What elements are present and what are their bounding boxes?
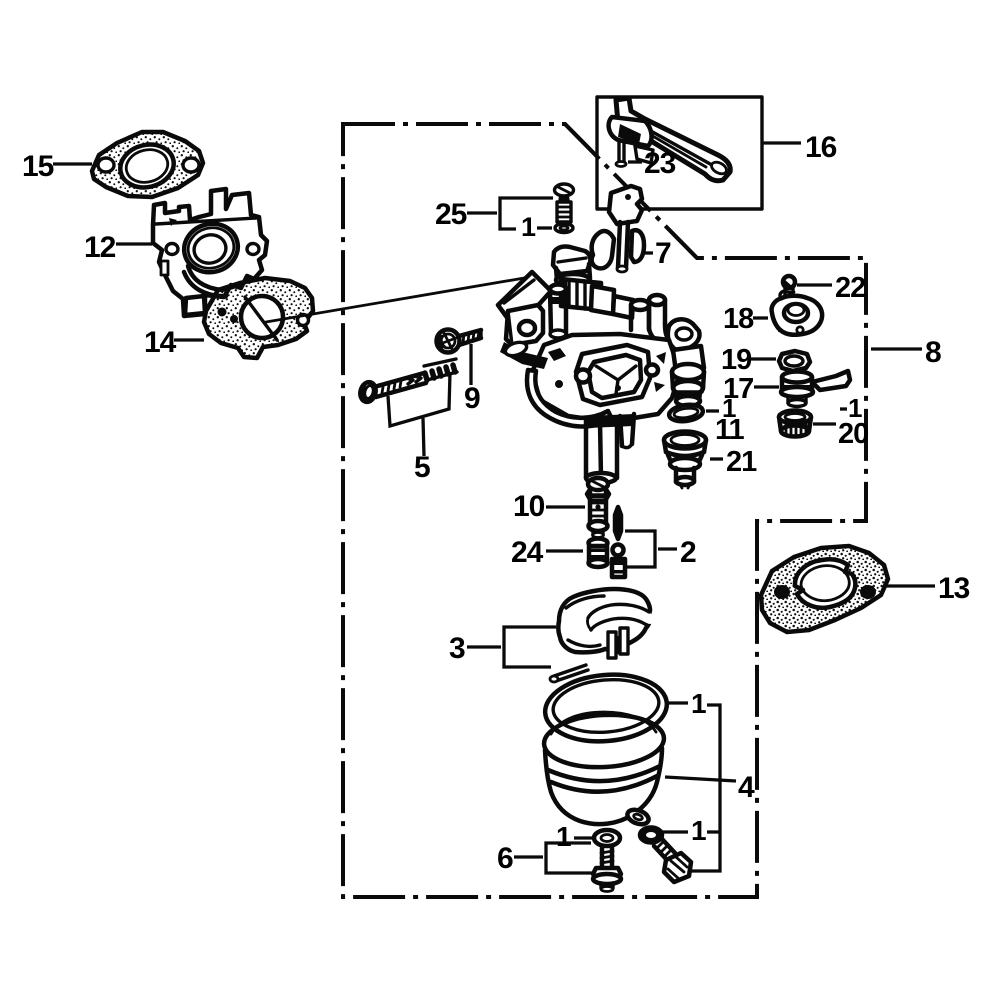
- svg-text:4: 4: [738, 771, 755, 804]
- svg-text:15: 15: [22, 150, 54, 183]
- svg-text:1: 1: [556, 821, 571, 852]
- svg-text:9: 9: [464, 382, 480, 415]
- svg-text:1: 1: [691, 815, 706, 846]
- svg-text:16: 16: [805, 131, 837, 164]
- svg-text:22: 22: [835, 272, 865, 304]
- svg-text:8: 8: [925, 336, 941, 369]
- svg-text:14: 14: [144, 326, 177, 359]
- svg-text:6: 6: [497, 842, 513, 875]
- svg-text:11: 11: [715, 414, 745, 446]
- svg-text:3: 3: [449, 632, 465, 665]
- svg-text:7: 7: [655, 237, 671, 270]
- svg-text:24: 24: [511, 536, 544, 569]
- svg-text:19: 19: [721, 344, 752, 376]
- svg-text:10: 10: [513, 490, 545, 523]
- svg-text:13: 13: [938, 572, 970, 605]
- svg-text:20: 20: [838, 418, 868, 450]
- svg-text:18: 18: [723, 303, 754, 335]
- svg-text:2: 2: [680, 536, 696, 569]
- svg-text:25: 25: [435, 198, 467, 231]
- svg-text:1: 1: [521, 212, 536, 242]
- svg-text:12: 12: [84, 231, 116, 264]
- svg-text:1: 1: [691, 688, 706, 719]
- svg-text:23: 23: [644, 147, 676, 180]
- svg-text:5: 5: [414, 451, 430, 484]
- svg-text:21: 21: [726, 446, 757, 478]
